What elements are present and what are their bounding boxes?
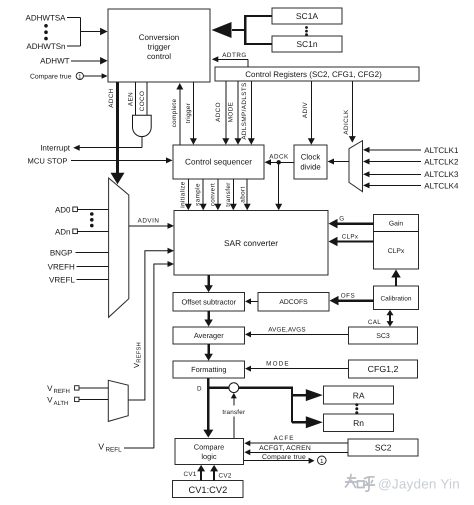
svg-text:divide: divide (300, 163, 320, 172)
svg-text:ADHWTSn: ADHWTSn (26, 42, 65, 51)
svg-text:SAR converter: SAR converter (224, 238, 278, 248)
svg-text:ALTH: ALTH (54, 400, 69, 407)
svg-text:CAL: CAL (368, 319, 381, 326)
svg-text:OFS: OFS (341, 292, 355, 299)
svg-text:ALTCLK4: ALTCLK4 (424, 181, 459, 190)
svg-text:V: V (98, 441, 104, 451)
svg-text:Clock: Clock (301, 153, 321, 162)
svg-text:V: V (47, 396, 53, 405)
svg-text:ALTCLK2: ALTCLK2 (424, 157, 459, 166)
svg-text:D: D (197, 386, 202, 393)
svg-text:Calibration: Calibration (380, 295, 411, 302)
svg-text:ADIV: ADIV (302, 101, 309, 118)
svg-text:REFL: REFL (106, 447, 123, 454)
svg-text:G: G (339, 216, 344, 223)
svg-text:Compare true: Compare true (30, 73, 72, 80)
svg-text:ADVIN: ADVIN (138, 218, 160, 225)
svg-text:Control sequencer: Control sequencer (185, 158, 252, 167)
svg-text:trigger: trigger (148, 43, 171, 52)
svg-text:ADn: ADn (55, 227, 71, 236)
svg-text:ADCOFS: ADCOFS (279, 299, 308, 306)
svg-text:ADCK: ADCK (269, 153, 289, 160)
svg-text:ADICLK: ADICLK (343, 109, 350, 135)
svg-text:ACFGT, ACREN: ACFGT, ACREN (259, 445, 311, 452)
svg-text:REFH: REFH (54, 388, 70, 395)
svg-text:AVGE,AVGS: AVGE,AVGS (268, 326, 306, 333)
svg-text:COCO: COCO (139, 91, 146, 112)
svg-text:ALTCLK3: ALTCLK3 (424, 170, 459, 179)
svg-text:V: V (47, 384, 53, 393)
svg-text:ADHWT: ADHWT (40, 57, 69, 66)
svg-text:ADLSMP/ADLSTS: ADLSMP/ADLSTS (241, 82, 248, 139)
svg-text:convert: convert (209, 183, 216, 206)
svg-text:trigger: trigger (185, 103, 192, 124)
svg-text:Gain: Gain (389, 221, 404, 228)
svg-text:initialize: initialize (180, 181, 187, 207)
svg-text:VREFL: VREFL (49, 275, 75, 284)
svg-text:Compare true: Compare true (262, 454, 306, 461)
svg-text:@Jayden Yin: @Jayden Yin (378, 477, 460, 492)
svg-text:CFG1,2: CFG1,2 (368, 364, 399, 374)
svg-text:AD0: AD0 (55, 205, 71, 214)
svg-text:Control Registers (SC2, CFG1,: Control Registers (SC2, CFG1, CFG2) (245, 70, 382, 79)
svg-text:SC3: SC3 (376, 333, 390, 340)
svg-text:Compare: Compare (194, 443, 224, 452)
svg-text:Conversion: Conversion (139, 33, 179, 42)
svg-text:CLPx: CLPx (342, 233, 359, 240)
svg-text:SC2: SC2 (375, 442, 392, 452)
svg-text:CV1:CV2: CV1:CV2 (189, 485, 228, 495)
svg-text:ADHWTSA: ADHWTSA (26, 13, 67, 22)
svg-text:CV1: CV1 (184, 471, 197, 478)
svg-text:ACFE: ACFE (274, 435, 295, 442)
svg-text:Formatting: Formatting (191, 365, 226, 374)
svg-text:transfer: transfer (225, 182, 232, 207)
svg-text:VREFH: VREFH (48, 263, 75, 272)
svg-text:SC1n: SC1n (296, 39, 318, 49)
svg-text:Offset subtractor: Offset subtractor (182, 297, 237, 306)
svg-text:MODE: MODE (227, 102, 234, 123)
svg-text:control: control (147, 52, 171, 61)
svg-text:CLPx: CLPx (388, 248, 405, 255)
svg-text:Rn: Rn (353, 418, 364, 428)
svg-text:ADTRG: ADTRG (222, 52, 247, 59)
svg-text:RA: RA (353, 390, 365, 400)
svg-text:sample: sample (194, 183, 201, 206)
svg-text:complete: complete (171, 99, 178, 128)
svg-text:CV2: CV2 (219, 472, 232, 479)
svg-text:AEN: AEN (127, 92, 134, 106)
svg-text:ALTCLK1: ALTCLK1 (424, 146, 459, 155)
svg-text:BNGP: BNGP (50, 248, 73, 257)
svg-text:ADCH: ADCH (108, 88, 115, 107)
svg-text:Interrupt: Interrupt (40, 144, 71, 153)
svg-text:SC1A: SC1A (296, 11, 319, 21)
svg-text:Averager: Averager (194, 331, 224, 340)
svg-text:MCU STOP: MCU STOP (28, 156, 68, 165)
svg-text:ADCO: ADCO (215, 102, 222, 122)
svg-text:MODE: MODE (266, 361, 290, 368)
svg-text:abort: abort (240, 186, 247, 202)
svg-text:logic: logic (201, 452, 217, 461)
svg-text:transfer: transfer (222, 409, 245, 416)
